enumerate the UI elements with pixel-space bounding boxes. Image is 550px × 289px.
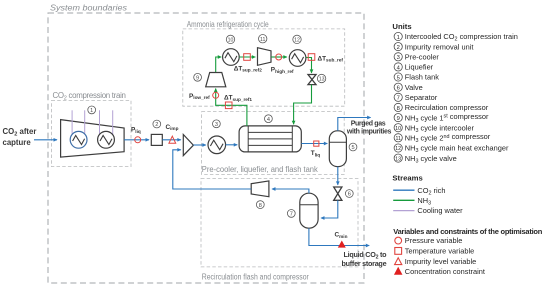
svg-text:13: 13: [319, 77, 325, 83]
svg-text:buffer storage: buffer storage: [342, 259, 387, 268]
cooling water line 1: [71, 110, 73, 135]
wire intercooler to compressor 11: [239, 56, 255, 58]
svg-text:8: 8: [397, 106, 400, 112]
wire recycle back to mixer: [173, 150, 251, 189]
recirculation flash and compressor dashed box: [201, 179, 358, 267]
svg-text:Purged gas: Purged gas: [351, 121, 386, 128]
flash tank U5: [329, 131, 346, 167]
svg-text:CO2 rich: CO2 rich: [417, 186, 445, 197]
train intercooler circle 1: [70, 131, 87, 148]
wire liquefier to flash tank: [301, 143, 327, 145]
pre-cooler liquefier flash tank dashed box: [202, 112, 345, 175]
temperature variable dT_sup_ref1: [225, 102, 232, 109]
CO2 compression train dashed box: [52, 101, 132, 167]
wire impurity unit to mixer: [162, 139, 181, 141]
svg-text:12: 12: [395, 146, 401, 152]
svg-text:3: 3: [397, 55, 400, 61]
svg-text:10: 10: [228, 38, 234, 44]
wire CO2 feed into compression train: [34, 139, 57, 141]
temperature variable dT_sup_ref2: [244, 54, 251, 61]
node 2 circled: [153, 120, 161, 128]
legend unit rows: [394, 32, 518, 164]
svg-text:Units: Units: [392, 22, 411, 31]
node 6 circled: [345, 190, 353, 198]
svg-text:NH3 cycle valve: NH3 cycle valve: [405, 154, 457, 165]
wire train to impurity unit: [124, 139, 149, 141]
temperature variable dT_sub_ref: [308, 54, 315, 61]
svg-text:with impurities: with impurities: [346, 128, 392, 135]
svg-text:Concentration constraint: Concentration constraint: [405, 267, 485, 276]
svg-text:12: 12: [294, 38, 300, 44]
liquefier U4 shell: [239, 126, 301, 152]
svg-text:9: 9: [397, 116, 400, 122]
wire heat exchanger to valve 13: [306, 58, 312, 73]
svg-text:1: 1: [397, 35, 400, 41]
cooling water line 3: [99, 110, 101, 135]
cooling water line 4: [112, 110, 114, 135]
svg-text:Valve: Valve: [405, 83, 423, 92]
svg-text:Impurity removal unit: Impurity removal unit: [405, 42, 474, 51]
wire separator bottom liquid CO2 out: [309, 228, 369, 245]
svg-text:4: 4: [267, 117, 270, 123]
NH3 compressor U9: [206, 73, 226, 87]
ammonia refrigeration cycle dashed box: [183, 29, 345, 106]
svg-text:Variables and constraints of t: Variables and constraints of the optimis…: [393, 227, 542, 236]
svg-text:Impurity level variable: Impurity level variable: [405, 257, 476, 266]
svg-text:Temperature variable: Temperature variable: [405, 247, 474, 256]
svg-text:Pressure variable: Pressure variable: [405, 236, 463, 245]
temperature variable T_liq: [314, 141, 319, 146]
svg-text:2: 2: [155, 122, 158, 128]
node 3 circled: [213, 120, 221, 128]
node 11 circled: [259, 35, 267, 43]
NH3 main heat exchanger U12: [289, 50, 306, 67]
svg-text:7: 7: [290, 212, 293, 218]
wire valve 13 to liquefier: [294, 85, 312, 125]
node 13 circled: [317, 74, 325, 82]
legend temperature variable: [395, 247, 474, 256]
node 10 circled: [226, 35, 234, 43]
svg-text:System boundaries: System boundaries: [50, 3, 128, 13]
stream CO2 rich: [393, 186, 445, 197]
svg-text:capture: capture: [3, 138, 32, 147]
svg-text:13: 13: [395, 156, 401, 162]
svg-text:Cooling water: Cooling water: [417, 206, 463, 215]
svg-text:Liquefier: Liquefier: [405, 63, 434, 72]
node 1 circled: [88, 106, 96, 114]
stream NH3: [393, 196, 431, 207]
wire compressor 11 to main heat exchanger: [271, 56, 287, 58]
valve U6: [334, 187, 342, 200]
outer dashed system boundary box: [48, 13, 364, 283]
svg-text:Intercooled CO2 compression tr: Intercooled CO2 compression train: [405, 32, 518, 43]
wire mixer to pre-cooler: [193, 144, 205, 146]
node 12 circled: [293, 35, 301, 43]
separator U7: [300, 193, 318, 228]
svg-text:1: 1: [90, 108, 93, 114]
svg-text:6: 6: [397, 86, 400, 92]
recirculation compressor U8: [251, 181, 269, 197]
pressure variable P_low_ref: [213, 92, 219, 98]
wire NH3 compressor 9 to intercooler 10: [216, 57, 222, 73]
svg-text:5: 5: [351, 145, 354, 151]
node 8 circled: [256, 201, 264, 209]
svg-text:Flash tank: Flash tank: [405, 73, 439, 82]
wire valve 6 to separator: [321, 200, 338, 218]
svg-text:2: 2: [397, 45, 400, 51]
svg-text:6: 6: [348, 192, 351, 198]
stream cooling water: [393, 206, 463, 215]
svg-text:11: 11: [260, 37, 265, 43]
wire separator top to recirculation compressor: [272, 189, 309, 193]
svg-text:9: 9: [196, 76, 199, 82]
node 9 circled: [194, 73, 202, 81]
wire pre-cooler to liquefier: [226, 144, 238, 146]
svg-text:10: 10: [395, 126, 401, 132]
svg-text:Recirculation compressor: Recirculation compressor: [405, 103, 489, 112]
NH3 intercooler U10: [223, 49, 240, 66]
node 5 circled: [349, 143, 357, 151]
concentration constraint C_min: [339, 241, 346, 247]
legend pressure variable: [395, 236, 463, 245]
svg-text:Ammonia refrigeration cycle: Ammonia refrigeration cycle: [187, 20, 270, 29]
cooling water line 2: [84, 110, 86, 135]
NH3 2nd compressor U11: [258, 48, 272, 66]
pressure variable P_liq: [135, 137, 141, 143]
legend impurity level variable: [395, 257, 477, 266]
NH3 cycle valve U13: [308, 75, 316, 85]
legend concentration constraint: [395, 267, 485, 276]
svg-text:11: 11: [396, 136, 401, 142]
svg-text:Recirculation flash and compre: Recirculation flash and compressor: [202, 273, 309, 282]
svg-text:Separator: Separator: [405, 93, 438, 102]
svg-text:8: 8: [259, 203, 262, 209]
svg-text:Streams: Streams: [392, 173, 422, 182]
svg-text:Pre-cooler, liquefier, and fla: Pre-cooler, liquefier, and flash tank: [202, 165, 318, 174]
pressure variable P_high_ref: [276, 54, 282, 60]
wire liquefier to compressor 9 suction: [216, 89, 247, 126]
compressor train trapezoid U1: [61, 120, 125, 158]
svg-text:7: 7: [397, 96, 400, 102]
svg-text:Pre-cooler: Pre-cooler: [405, 53, 440, 62]
impurity removal unit box U2: [151, 134, 162, 145]
svg-text:3: 3: [215, 122, 218, 128]
pre-cooler U3: [208, 136, 226, 154]
node 7 circled: [287, 210, 295, 218]
impurity variable C_imp triangle: [169, 136, 176, 143]
node 4 circled: [265, 115, 273, 123]
svg-text:NH3 cycle main heat exchanger: NH3 cycle main heat exchanger: [405, 144, 509, 155]
mixer triangle: [183, 135, 193, 156]
svg-text:5: 5: [397, 75, 400, 81]
wire purge gas out: [338, 118, 371, 131]
wire flash tank to valve 6: [337, 167, 339, 185]
train intercooler circle 2: [98, 131, 115, 148]
